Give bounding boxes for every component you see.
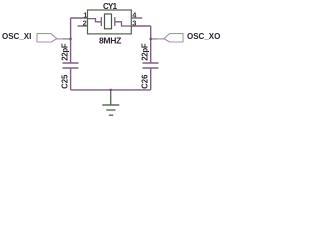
svg-text:22pF: 22pF bbox=[61, 43, 70, 61]
svg-text:OSC_XO: OSC_XO bbox=[187, 32, 220, 41]
svg-text:3: 3 bbox=[132, 18, 136, 27]
svg-text:22pF: 22pF bbox=[141, 43, 150, 61]
svg-text:8MHZ: 8MHZ bbox=[99, 36, 121, 46]
svg-text:OSC_XI: OSC_XI bbox=[2, 32, 31, 41]
svg-text:2: 2 bbox=[83, 18, 87, 27]
svg-text:C26: C26 bbox=[141, 74, 150, 89]
svg-text:C25: C25 bbox=[61, 74, 70, 89]
svg-text:CY1: CY1 bbox=[103, 2, 118, 11]
